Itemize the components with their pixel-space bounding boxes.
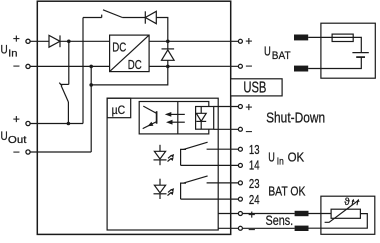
svg-text:ϑ: ϑ: [344, 197, 350, 208]
wire minus vertical: [90, 66, 92, 152]
wire 13: [207, 148, 239, 150]
svg-text:OK: OK: [288, 150, 305, 165]
terminal circle sens+: [238, 212, 242, 216]
svg-text:DC: DC: [112, 39, 126, 54]
relay contact K2: [181, 176, 208, 199]
fuse F1: [332, 34, 353, 41]
wire U_In+ stub: [30, 40, 49, 42]
node minus junction: [89, 65, 93, 69]
wire shut-down plus: [214, 106, 239, 108]
svg-text:USB: USB: [243, 79, 266, 96]
label U_Out: [1, 129, 27, 146]
terminal circle UBAT+: [238, 39, 242, 43]
node U_Out+ junction: [67, 122, 71, 126]
svg-text:In: In: [8, 49, 17, 60]
label theta sensor: [344, 197, 350, 208]
svg-text:−: −: [13, 145, 20, 159]
svg-text:U: U: [268, 150, 275, 165]
relay contact K1: [181, 142, 208, 165]
svg-text:In: In: [277, 157, 284, 168]
wire sens- to pad2: [242, 227, 295, 229]
wire 24: [181, 198, 239, 200]
diode D3 clamp: [162, 41, 175, 66]
thermistor RT1: [325, 201, 361, 222]
svg-text:23: 23: [249, 176, 260, 191]
diode D1 input: [49, 35, 60, 47]
node output plus: [166, 40, 170, 44]
svg-text:BAT OK: BAT OK: [268, 184, 306, 199]
wire bypass branch down: [68, 41, 70, 84]
node output minus: [166, 65, 170, 69]
label U_In OK: [268, 150, 304, 168]
svg-text:DC: DC: [128, 57, 142, 72]
LED D5 U_In OK: [154, 145, 167, 165]
wire boost branch top: [83, 17, 102, 19]
terminal circle sens-: [238, 226, 242, 230]
flash arrows D6: [168, 188, 175, 196]
svg-text:13: 13: [249, 142, 260, 157]
terminal circle 23: [238, 181, 242, 185]
wire to diode D2: [122, 17, 145, 19]
node input junction: [67, 40, 71, 44]
LED D4 shut-down: [196, 107, 206, 130]
microcontroller box U3: [107, 98, 131, 118]
battery B1: [352, 53, 368, 58]
svg-text:Sens.: Sens.: [266, 212, 294, 228]
wire shut-down minus: [214, 128, 239, 130]
flash arrows D5: [168, 154, 175, 162]
svg-text:+: +: [13, 112, 20, 126]
svg-text:BAT: BAT: [272, 50, 291, 62]
DC/DC converter U2: [110, 35, 150, 72]
outer device box: [37, 1, 230, 234]
wire pad1 to thermistor: [309, 213, 332, 215]
terminal circle SD-: [238, 127, 242, 131]
wire U_In+ to DC/DC: [60, 40, 110, 42]
svg-text:+: +: [245, 34, 252, 48]
svg-text:14: 14: [249, 158, 260, 173]
battery pad 2: [294, 66, 308, 72]
svg-text:24: 24: [249, 192, 260, 207]
wire sens minus: [218, 227, 239, 229]
phototransistor Q1: [143, 106, 157, 129]
wire U_Out+: [30, 123, 83, 125]
svg-text:µC: µC: [112, 103, 126, 117]
wire battery to pad2: [308, 57, 361, 68]
terminal circle SD+: [238, 105, 242, 109]
svg-text:+: +: [13, 32, 20, 46]
battery pad 1: [294, 35, 308, 41]
wire fuse to battery: [353, 37, 361, 52]
optocoupler divider: [177, 102, 179, 134]
svg-text:Shut-Down: Shut-Down: [266, 111, 325, 127]
LED D6 BAT OK: [154, 179, 167, 199]
wire D2 to output node: [156, 18, 168, 42]
wire 23: [207, 182, 239, 184]
USB box: [231, 79, 282, 96]
label U_BAT: [264, 44, 291, 62]
wire pad1 to fuse: [308, 36, 332, 38]
svg-text:−: −: [248, 222, 255, 236]
svg-text:−: −: [245, 59, 252, 73]
switch S1 bypass: [59, 83, 69, 124]
wire boost branch vertical: [82, 18, 84, 124]
battery box: [321, 23, 375, 78]
light arrow 2: [166, 120, 185, 125]
svg-text:−: −: [245, 124, 252, 138]
terminal circle 14: [238, 163, 242, 167]
terminal circle 24: [238, 197, 242, 201]
terminal circle UBAT-: [238, 64, 242, 68]
terminal U_In + circle: [26, 39, 30, 43]
terminal U_In - circle: [26, 64, 30, 68]
svg-text:U: U: [264, 44, 271, 59]
svg-text:U: U: [1, 129, 8, 143]
svg-text:+: +: [248, 207, 255, 221]
wire thermistor to pad2: [309, 214, 368, 229]
theta arrows: [352, 199, 360, 206]
terminal U_Out - circle: [26, 150, 30, 154]
wire U_In- to DC/DC: [30, 65, 109, 67]
svg-text:U: U: [1, 42, 8, 56]
sens pad 2: [295, 226, 309, 231]
svg-text:+: +: [245, 100, 252, 114]
wire sens plus: [218, 213, 239, 215]
LED box shut-down input: [196, 107, 214, 130]
light arrow 1: [165, 112, 185, 117]
sens pad 1: [295, 211, 309, 216]
svg-text:−: −: [13, 59, 20, 73]
diode D2 top: [145, 11, 156, 23]
sensor box: [321, 196, 375, 234]
wire 14: [181, 164, 239, 166]
switch S2 boost: [102, 10, 123, 18]
wire output plus rail: [149, 40, 239, 42]
controller big box: [107, 98, 218, 230]
label U_In: [1, 42, 18, 59]
terminal U_Out + circle: [26, 121, 30, 125]
optocoupler U4 box: [139, 102, 209, 134]
terminal circle 13: [238, 147, 242, 151]
node minus detour junction: [89, 83, 93, 87]
wire U_Out-: [30, 151, 91, 153]
wire sens+ to pad1: [242, 213, 295, 215]
wire minus detour below DC/DC: [91, 66, 168, 85]
wire output minus rail: [149, 65, 239, 67]
